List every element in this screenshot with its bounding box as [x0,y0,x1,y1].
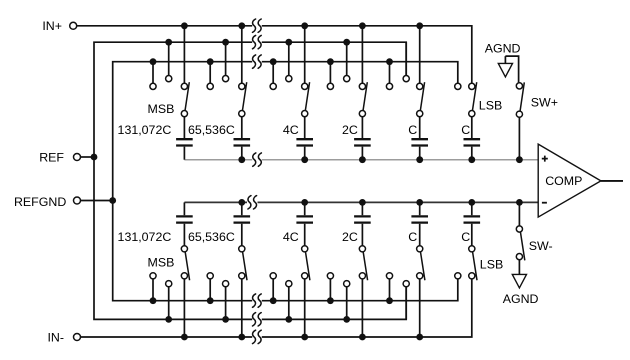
switch contact to REFGND (bottom bit 5) [386,273,392,279]
wire REFGND terminal to bus [81,200,113,202]
junction bottom common rail / capacitor 4C [301,199,308,206]
junction REF rail / stub (bottom bit 4) [343,316,350,323]
wire REFGND contact stub (bottom bit 4) [329,279,331,301]
junction IN+ rail / stub (top MSB) [181,22,188,29]
wire REFGND contact stub (bottom bit 2) [209,279,211,301]
switch contact to REFGND (top MSB) [150,83,156,89]
capacitor 65,536C (bottom) [234,202,251,245]
switch contact to REFGND (bottom bit 2) [207,273,213,279]
junction IN- rail / stub (bottom bit 4) [359,334,366,341]
wire IN- rail (net IN-) [81,279,472,337]
junction REFGND rail / stub (bottom bit 5) [386,297,393,304]
junction REF rail / stub (top bit 2) [222,39,229,46]
svg-text:SW+: SW+ [531,96,558,110]
wire IN+ contact stub (top bit 4) [361,26,363,84]
wire bottom capacitor common rail (comparator - input) [184,201,538,203]
wire REFGND bus (net REFGND): top rail, left vertical, bottom rail [113,62,458,301]
junction bottom common rail / capacitor C [416,199,423,206]
capacitor 131,072C (bottom) [176,202,193,245]
capacitor 2C (bottom) [354,202,371,245]
junction top common rail / SW+ [516,156,523,163]
wire REF contact stub (top bit 4) [346,42,348,75]
svg-text:AGND: AGND [503,292,539,306]
switch contact to REF (top bit 4) [344,76,350,82]
junction IN+ rail / stub (top bit 5) [416,22,423,29]
svg-text:131,072C: 131,072C [118,123,172,137]
op-amp COMP (comparator U1) [538,144,601,217]
switch contact to REF (top MSB) [166,76,172,82]
capacitor 4C (bottom) [296,202,313,245]
svg-text:4C: 4C [283,230,299,244]
switch contact to IN- (bottom bit 4) [359,273,365,279]
switch contact to REF (bottom MSB) [166,281,172,287]
capacitor C (bottom) [411,202,428,245]
switch MSB (bottom), arm and pole [181,246,189,281]
capacitor 65,536C (top) [234,117,251,160]
junction bottom common rail / capacitor 2C [359,199,366,206]
break mark on bottom REF rail [253,313,262,326]
wire REFGND contact stub (top MSB) [152,62,154,84]
capacitor C (top) [464,117,481,160]
break mark on top REF rail [253,35,262,48]
wire IN+ contact stub (top bit 5) [419,26,421,84]
svg-text:IN-: IN- [47,330,64,344]
wire IN+ contact stub (top MSB) [183,26,185,84]
switch LSB (top), arm and pole [469,82,477,117]
svg-text:C: C [408,230,417,244]
switch bit 4 (top), arm and pole [359,82,367,117]
switch contact to IN- (bottom LSB) [469,273,475,279]
svg-text:AGND: AGND [485,41,521,55]
junction REFGND / bus [109,197,116,204]
junction IN- rail / stub (bottom MSB) [181,334,188,341]
svg-text:IN+: IN+ [42,19,62,33]
svg-text:C: C [461,123,470,137]
switch contact to IN- (bottom bit 2) [239,273,245,279]
junction IN- rail / stub (bottom bit 2) [238,334,245,341]
switch contact to IN+ (top bit 3) [302,83,308,89]
switch bit 5 (top), arm and pole [417,82,425,117]
wire REFGND contact stub (top bit 2) [209,62,211,84]
break mark on top REFGND rail [253,55,262,68]
switch contact to REFGND (bottom LSB) [455,273,461,279]
wire REF terminal to bus [81,156,94,158]
svg-text:131,072C: 131,072C [118,230,172,244]
junction IN+ rail / stub (top bit 3) [301,22,308,29]
junction IN+ rail / stub (top bit 2) [238,22,245,29]
switch contact to IN- (bottom MSB) [181,273,187,279]
switch LSB (bottom), arm and pole [469,246,477,281]
junction top common rail / capacitor 65,536C [238,156,245,163]
wire IN+ contact stub (top bit 2) [241,26,243,84]
svg-text:MSB: MSB [148,256,175,270]
wire REFGND contact stub (bottom bit 5) [389,279,391,301]
switch contact to REF (bottom bit 3) [286,281,292,287]
break mark on bottom common rail [248,196,257,209]
switch contact to REF (top bit 3) [286,76,292,82]
junction REF rail / stub (bottom MSB) [165,316,172,323]
switch contact to REF (top bit 2) [223,76,229,82]
switch contact to IN+ (top LSB) [469,83,475,89]
wire REF contact stub (top bit 2) [225,42,227,75]
switch contact to REFGND (top bit 2) [207,83,213,89]
wire SW+ to top common rail [518,117,520,159]
junction top common rail / capacitor C [416,156,423,163]
wire REFGND contact stub (bottom MSB) [152,279,154,301]
wire REFGND contact stub (top bit 5) [389,62,391,84]
switch bit 5 (bottom), arm and pole [417,246,425,281]
junction REFGND rail / stub (top bit 3) [270,58,277,65]
svg-text:LSB: LSB [480,257,503,271]
svg-text:4C: 4C [283,123,299,137]
junction REF rail / stub (bottom bit 3) [285,316,292,323]
wire REF contact stub (bottom bit 2) [225,287,227,320]
svg-text:2C: 2C [342,123,358,137]
capacitor 4C (top) [296,117,313,160]
svg-text:MSB: MSB [148,102,175,116]
switch contact to REFGND (bottom MSB) [150,273,156,279]
junction REF rail / stub (top bit 4) [343,39,350,46]
wire REF contact stub (bottom bit 3) [288,287,290,320]
junction bottom common rail / capacitor 65,536C [238,199,245,206]
wire comparator output [601,180,623,182]
switch contact to REFGND (top bit 5) [386,83,392,89]
switch bit 3 (top), arm and pole [302,82,310,117]
wire SW- from bottom common rail [518,202,520,226]
wire REF contact stub (bottom bit 4) [346,287,348,320]
switch contact to REFGND (top bit 4) [327,83,333,89]
wire REF contact stub (bottom bit 5) [405,287,407,320]
switch bit 3 (bottom), arm and pole [302,246,310,281]
switch contact to REF (top bit 5) [403,76,409,82]
ground AGND (top): lead and symbol [498,56,518,82]
switch contact to REFGND (top LSB) [455,83,461,89]
capacitor C (bottom) [464,202,481,245]
wire IN- contact stub (bottom MSB) [183,279,185,337]
switch contact to REFGND (bottom bit 3) [270,273,276,279]
wire REF contact stub (top MSB) [168,42,170,75]
switch contact to REFGND (bottom bit 4) [327,273,333,279]
wire REFGND contact stub (top bit 4) [329,62,331,84]
wire IN- contact stub (bottom bit 4) [361,279,363,337]
junction REFGND rail / stub (bottom MSB) [150,297,157,304]
svg-text:REFGND: REFGND [14,195,66,209]
svg-text:65,536C: 65,536C [188,230,235,244]
svg-text:LSB: LSB [479,99,502,113]
svg-text:SW-: SW- [529,239,553,253]
wire REF contact stub (bottom MSB) [168,287,170,320]
junction REF rail / stub (top MSB) [165,39,172,46]
wire REFGND contact stub (top bit 3) [272,62,274,84]
switch contact to IN+ (top bit 5) [417,83,423,89]
switch bit 2 (top), arm and pole [239,82,247,117]
switch bit 2 (bottom), arm and pole [239,246,247,281]
junction top common rail / capacitor 4C [301,156,308,163]
terminal REFGND [74,197,81,204]
junction IN- rail / stub (bottom bit 3) [301,334,308,341]
switch SW+ : contacts and arm [516,82,524,117]
switch contact to IN+ (top bit 2) [239,83,245,89]
break mark on IN+ rail [253,19,262,32]
junction REF rail / stub (bottom bit 2) [222,316,229,323]
wire IN- contact stub (bottom bit 5) [419,279,421,337]
switch contact to IN- (bottom bit 3) [302,273,308,279]
svg-text:C: C [408,123,417,137]
svg-text:COMP: COMP [545,174,582,188]
break mark on IN- rail [253,330,262,343]
terminal REF [74,154,81,161]
wire REF contact stub (top bit 5) [405,42,407,75]
switch bit 4 (bottom), arm and pole [359,246,367,281]
switch contact to IN+ (top MSB) [181,83,187,89]
junction REFGND rail / stub (top bit 5) [386,58,393,65]
svg-text:REF: REF [39,150,64,164]
wire REFGND contact stub (bottom bit 3) [272,279,274,301]
capacitor 2C (top) [354,117,371,160]
svg-text:65,536C: 65,536C [188,123,235,137]
wire IN+ rail (net IN+) [77,26,472,84]
switch contact to IN+ (top bit 4) [359,83,365,89]
wire REF bus (net REF): top rail, left vertical, bottom rail [94,42,406,319]
junction bottom common rail / capacitor C [468,199,475,206]
wire IN- contact stub (bottom bit 3) [304,279,306,337]
capacitor C (top) [411,117,428,160]
junction REFGND rail / stub (bottom bit 2) [207,297,214,304]
switch SW- : contacts and arm [516,226,524,261]
terminal IN- [74,334,81,341]
capacitor 131,072C (top) [176,117,193,160]
svg-text:2C: 2C [342,230,358,244]
switch MSB (top), arm and pole [181,82,189,117]
junction REFGND rail / stub (top MSB) [150,58,157,65]
wire REF contact stub (top bit 3) [288,42,290,75]
junction bottom common rail / SW- [516,199,523,206]
switch contact to REF (bottom bit 4) [344,281,350,287]
ground AGND (bottom): lead and symbol [512,260,526,288]
junction REF / bus [91,154,98,161]
junction IN+ rail / stub (top bit 4) [359,22,366,29]
junction top common rail / capacitor C [468,156,475,163]
junction top common rail / capacitor 2C [359,156,366,163]
break mark on bottom REFGND rail [253,294,262,307]
terminal IN+ [70,22,77,29]
junction REFGND rail / stub (bottom bit 4) [327,297,334,304]
junction REFGND rail / stub (top bit 2) [207,58,214,65]
junction REF rail / stub (top bit 3) [285,39,292,46]
switch contact to REF (bottom bit 5) [403,281,409,287]
junction IN- rail / stub (bottom bit 5) [416,334,423,341]
switch contact to REF (bottom bit 2) [223,281,229,287]
break mark on top common rail [253,153,262,166]
wire top capacitor common rail (comparator + input) [184,159,538,161]
switch contact to IN- (bottom bit 5) [417,273,423,279]
svg-text:C: C [461,230,470,244]
switch contact to REFGND (top bit 3) [270,83,276,89]
wire IN+ contact stub (top bit 3) [304,26,306,84]
junction REFGND rail / stub (top bit 4) [327,58,334,65]
wire IN- contact stub (bottom bit 2) [241,279,243,337]
junction REFGND rail / stub (bottom bit 3) [270,297,277,304]
